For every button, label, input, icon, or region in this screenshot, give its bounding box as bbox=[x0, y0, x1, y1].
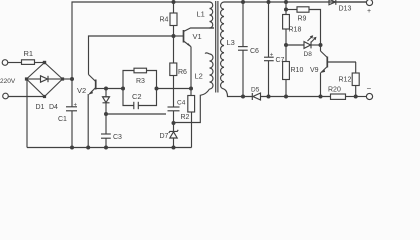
svg-text:R2: R2 bbox=[181, 114, 190, 121]
resistor R9 bbox=[286, 7, 309, 23]
wire R9 to V9 collector bbox=[309, 10, 321, 46]
svg-text:+: + bbox=[367, 8, 371, 15]
svg-text:R4: R4 bbox=[160, 17, 169, 24]
svg-text:L1: L1 bbox=[197, 10, 205, 19]
node R3C2 right bbox=[155, 87, 159, 91]
svg-text:R1: R1 bbox=[24, 49, 34, 58]
svg-text:C2: C2 bbox=[132, 92, 142, 101]
resistor R12 bbox=[339, 62, 360, 97]
wire V2 collector to V1 base bbox=[89, 36, 174, 75]
svg-text:D1: D1 bbox=[36, 104, 45, 111]
node D7 bus bbox=[172, 146, 176, 150]
wire mid bbox=[106, 88, 123, 90]
node R10 bus bbox=[284, 95, 288, 99]
resistor R6 bbox=[170, 36, 187, 107]
wire bridge plus to rail bbox=[63, 78, 73, 80]
svg-text:R10: R10 bbox=[291, 67, 304, 74]
terminal AC input bottom bbox=[3, 93, 9, 99]
wire L2 bottom to C4 node bbox=[175, 89, 210, 123]
svg-text:L2: L2 bbox=[195, 72, 203, 81]
resistor R4 bbox=[160, 2, 178, 36]
transformer primary L1 bbox=[197, 2, 215, 28]
terminal output minus bbox=[366, 84, 372, 100]
wire V9 emitter drop bbox=[320, 73, 322, 97]
node C6 top bbox=[241, 0, 245, 4]
node D8 anode bbox=[284, 43, 288, 47]
wire bbox=[8, 62, 22, 64]
node V2 emitter bus bbox=[86, 146, 90, 150]
svg-text:V1: V1 bbox=[193, 32, 202, 41]
node V9 emitter bus bbox=[319, 95, 323, 99]
wire output minus bbox=[356, 96, 367, 98]
svg-text:V9: V9 bbox=[310, 67, 319, 74]
resistor R3 loop bbox=[123, 68, 157, 88]
diode D5 bbox=[251, 87, 331, 101]
diode D7 zener bbox=[160, 123, 179, 148]
transformer secondary L3 bbox=[221, 2, 235, 89]
capacitor C6 bbox=[238, 2, 259, 97]
resistor R10 bbox=[283, 45, 304, 97]
svg-text:R18: R18 bbox=[289, 27, 302, 34]
node R9 tap bbox=[284, 8, 288, 12]
node C7 bus bbox=[267, 95, 271, 99]
wire secondary bottom to bus bbox=[224, 89, 252, 97]
svg-text:R3: R3 bbox=[136, 78, 145, 85]
svg-text:D5: D5 bbox=[251, 87, 260, 94]
wire DC+ rail riser bbox=[72, 2, 210, 79]
wire V1 emitter drop bbox=[190, 47, 192, 89]
wire bottom bus left bbox=[27, 147, 192, 149]
wire secondary top rail bbox=[224, 1, 366, 3]
svg-text:C4: C4 bbox=[177, 100, 186, 107]
wire bbox=[8, 96, 44, 98]
resistor R2 bbox=[181, 89, 195, 148]
wire bbox=[285, 2, 287, 10]
node R12 bus bbox=[354, 95, 358, 99]
capacitor C3 bbox=[101, 114, 122, 148]
node bridge top bbox=[43, 61, 46, 64]
svg-text:−: − bbox=[367, 84, 372, 93]
node V1 emitter bbox=[189, 87, 193, 91]
capacitor C1 bbox=[58, 79, 78, 148]
capacitor C7 bbox=[264, 2, 285, 97]
node C4 D7 bbox=[172, 121, 176, 125]
diode D2 bbox=[103, 89, 110, 115]
svg-text:C7: C7 bbox=[276, 57, 285, 64]
capacitor C4 bbox=[168, 100, 186, 124]
node C3 top bbox=[104, 112, 108, 116]
transistor V1 bbox=[174, 28, 215, 47]
svg-text:C3: C3 bbox=[113, 134, 122, 141]
svg-text:V2: V2 bbox=[77, 86, 86, 95]
resistor R18 bbox=[283, 10, 302, 46]
svg-text:D7: D7 bbox=[160, 133, 169, 140]
svg-text:D8: D8 bbox=[304, 51, 313, 58]
svg-text:L3: L3 bbox=[227, 38, 235, 47]
transformer winding L2 bbox=[195, 53, 214, 89]
svg-text:R12: R12 bbox=[339, 77, 352, 84]
transistor V9 bbox=[310, 45, 356, 74]
node C3 bus bbox=[104, 146, 108, 150]
node V2 base bbox=[104, 87, 108, 91]
transformer core bbox=[216, 1, 218, 93]
terminal AC input top bbox=[2, 60, 8, 66]
node C7 top bbox=[267, 0, 271, 4]
svg-text:+: + bbox=[74, 103, 78, 109]
node rail corner bbox=[70, 77, 74, 81]
transistor V2 bbox=[77, 75, 106, 96]
svg-text:R6: R6 bbox=[178, 69, 187, 76]
svg-text:D13: D13 bbox=[339, 6, 352, 13]
svg-text:D4: D4 bbox=[49, 104, 58, 111]
svg-text:220V: 220V bbox=[0, 78, 16, 85]
wire node to C4 column bbox=[106, 113, 166, 115]
node R18 rail bbox=[284, 0, 288, 4]
capacitor C2 loop bbox=[123, 89, 157, 110]
wire bridge minus drop bbox=[26, 79, 28, 148]
diode D8 bbox=[286, 35, 321, 58]
diode D13 bbox=[329, 0, 366, 13]
wire mid right bbox=[157, 88, 192, 90]
node D8 cathode bbox=[319, 43, 323, 47]
resistor R20 bbox=[328, 87, 356, 100]
node R4 top bbox=[172, 0, 176, 4]
wire V2 emitter drop bbox=[87, 94, 89, 148]
svg-text:C1: C1 bbox=[58, 116, 67, 123]
terminal output plus bbox=[366, 0, 372, 15]
svg-text:R9: R9 bbox=[298, 16, 307, 23]
node C1 bus bbox=[70, 146, 74, 150]
resistor R1 bbox=[22, 49, 35, 64]
svg-text:R20: R20 bbox=[328, 87, 341, 94]
svg-text:+: + bbox=[270, 53, 274, 59]
svg-text:C6: C6 bbox=[250, 48, 259, 55]
node V1 base bbox=[172, 34, 176, 38]
wire bbox=[35, 62, 45, 64]
node R3C2 left bbox=[121, 87, 125, 91]
node C6 bus bbox=[241, 95, 245, 99]
bridge rectifier D1-D4 bbox=[25, 63, 64, 112]
